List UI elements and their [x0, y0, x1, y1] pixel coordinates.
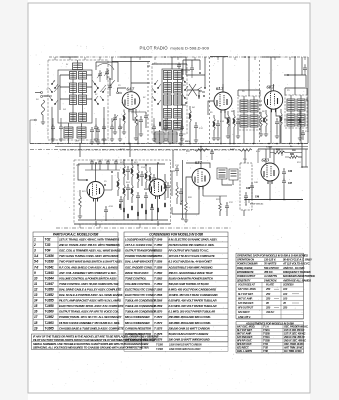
wire below PS	[248, 200, 250, 204]
svg-text:TONE CONTROL ASSY. 50,000 OHMS: TONE CONTROL ASSY. 50,000 OHMS WITH SW.	[59, 282, 119, 286]
svg-text:MICA CONDENSER: MICA CONDENSER	[125, 315, 151, 319]
middle condenser table	[124, 232, 228, 351]
crossed switch arrows	[188, 84, 197, 96]
wire output box top	[78, 164, 165, 181]
svg-text:CONDENSERS FOR MODELS IN D-598: CONDENSERS FOR MODELS IN D-598	[149, 233, 203, 237]
svg-text:T-1578: T-1578	[154, 337, 163, 341]
svg-text:T-1580: T-1580	[156, 343, 164, 346]
svg-text:FILTER CHOKE ASSEMBLY 350 OHMS: FILTER CHOKE ASSEMBLY 350 OHMS D.C. RES.	[59, 321, 120, 325]
svg-text:6.3V: 6.3V	[256, 151, 261, 153]
svg-text:POWER OUTPUT: POWER OUTPUT	[237, 275, 256, 278]
wire lower bus 149.5	[30, 149, 240, 151]
svg-text:6A7 OSC. MOD.: 6A7 OSC. MOD.	[237, 325, 255, 329]
svg-text:T-53: T-53	[45, 243, 51, 247]
svg-text:T-52: T-52	[45, 238, 51, 242]
svg-text:S1: S1	[53, 81, 55, 83]
voltage annotations	[75, 141, 293, 151]
svg-text:T-1663: T-1663	[45, 321, 54, 325]
wire T8 feed	[238, 57, 260, 96]
svg-text:T-1556: T-1556	[154, 260, 163, 264]
svg-text:OPERATION ON: OPERATION ON	[237, 259, 254, 262]
svg-text:R.F. COIL AND SHIELD CAN ASSY.: R.F. COIL AND SHIELD CAN ASSY. ALL BANDS	[59, 265, 118, 269]
antenna coil L1	[41, 100, 45, 124]
top line ticks	[55, 57, 305, 60]
wire lower misc	[96, 163, 210, 226]
svg-text:INTERMEDIATE: INTERMEDIATE	[237, 271, 254, 274]
svg-text:T-1582: T-1582	[156, 348, 164, 351]
svg-text:T-1550: T-1550	[154, 243, 163, 247]
PS extra wires	[258, 149, 306, 167]
svg-text:PLATE: PLATE	[266, 283, 274, 287]
band switch outer dashed box	[48, 60, 108, 140]
screen resistor R4	[189, 106, 192, 143]
svg-text:DIAL DRIVE CABLE & PULLEY ASSY: DIAL DRIVE CABLE & PULLEY ASSY. COMPLETE	[59, 287, 121, 291]
PS labels	[266, 146, 296, 152]
field coil cap	[244, 192, 248, 206]
svg-text:POWER TRANSFORMER: POWER TRANSFORMER	[125, 254, 158, 258]
6J7 plate load	[203, 196, 229, 216]
grid cap lead	[117, 88, 127, 94]
wire 6L7 leads	[208, 84, 230, 143]
svg-text:T-55: T-55	[263, 346, 268, 350]
svg-text:T-1636: T-1636	[45, 254, 54, 258]
svg-text:ANT. COIL ASSEMBLY WITH PRIMAR: ANT. COIL ASSEMBLY WITH PRIMARY & SEC.	[58, 271, 117, 275]
wire top bus dark segments	[60, 56, 78, 58]
svg-text:6.3 VOLT MAZDA No. 44 BAYONET: 6.3 VOLT MAZDA No. 44 BAYONET	[169, 260, 213, 264]
6K7 screen network	[275, 109, 283, 143]
power resistor R31	[285, 153, 302, 158]
6A7 cathode resistor	[122, 110, 126, 135]
svg-text:MICA CONDENSER: MICA CONDENSER	[125, 321, 151, 325]
svg-text:45: 45	[282, 301, 286, 305]
svg-text:TONE CONTROL: TONE CONTROL	[125, 276, 147, 280]
svg-text:FILTER CHOKE 350 OHMS D.C. RES: FILTER CHOKE 350 OHMS D.C. RES.	[169, 243, 215, 247]
bypass cap C12	[194, 122, 198, 142]
svg-text:T-54: T-54	[263, 342, 268, 346]
svg-text:ELECTROLYTIC COND.: ELECTROLYTIC COND.	[125, 293, 155, 297]
scan speckle	[30, 45, 308, 391]
6L7 extra bypass	[226, 111, 230, 138]
output box inner caps row	[85, 160, 120, 171]
power resistor R30	[270, 149, 290, 154]
svg-text:T-1655: T-1655	[45, 299, 54, 303]
tone control string	[176, 182, 183, 204]
svg-text:6F6 OUTPUT: 6F6 OUTPUT	[238, 306, 253, 310]
svg-text:T-52A: T-52A	[263, 328, 270, 332]
svg-text:330 AC: 330 AC	[266, 310, 274, 314]
svg-text:6K7 I.F. AMP.: 6K7 I.F. AMP.	[237, 332, 252, 336]
svg-text:T-1560: T-1560	[154, 271, 163, 275]
svg-text:T-1658: T-1658	[45, 304, 54, 308]
svg-text:1ST A.F. CHOKE COIL: 1ST A.F. CHOKE COIL	[125, 243, 153, 247]
svg-text:TUBULAR CONDENSER: TUBULAR CONDENSER	[125, 304, 157, 308]
det top right	[284, 57, 307, 87]
svg-text:T-1572: T-1572	[154, 315, 163, 319]
6J7 grid cap C30	[170, 166, 179, 176]
svg-text:19: 19	[34, 326, 38, 330]
wire T9 feed	[285, 57, 307, 95]
tube 6J7 1st audio	[192, 169, 210, 190]
svg-text:5-6: 5-6	[34, 260, 39, 264]
svg-text:8 IN. ELECTRO DYNAMIC SPKR. AS: 8 IN. ELECTRO DYNAMIC SPKR. ASSY.	[169, 238, 219, 242]
svg-text:OSC. PADDER COND.: OSC. PADDER COND.	[125, 265, 153, 269]
audio output box	[74, 160, 171, 224]
tube 6F6 output (left)	[87, 182, 104, 202]
svg-text:6K7 I.F. AMP.: 6K7 I.F. AMP.	[238, 296, 253, 300]
6L7 screen divider	[233, 110, 241, 143]
svg-text:TWO GANG TUNING COND. ASSY. WI: TWO GANG TUNING COND. ASSY. WITH DRIVE	[59, 254, 119, 258]
svg-text:TWO POINT WAVE BAND SWITCH & S: TWO POINT WAVE BAND SWITCH & SHAFT ASSY.	[59, 260, 123, 264]
svg-text:T-52B: T-52B	[263, 332, 270, 336]
svg-text:100: 100	[283, 287, 288, 291]
svg-text:T-1563: T-1563	[154, 282, 163, 286]
svg-text:T-1570: T-1570	[154, 310, 163, 314]
bypass strings bottom band	[51, 118, 184, 141]
osc coil outer dashed box	[152, 64, 187, 134]
svg-text:0.01 MFD. 600 VOLT PAPER TUBUL: 0.01 MFD. 600 VOLT PAPER TUBULAR	[169, 304, 218, 308]
svg-text:T-1569: T-1569	[154, 304, 163, 308]
wire interstage verticals	[80, 144, 302, 169]
svg-text:VOLTAGES AT: VOLTAGES AT	[238, 283, 255, 287]
osc grid feed	[182, 60, 201, 79]
svg-text:T-1576: T-1576	[154, 332, 163, 336]
output box bottom double line	[74, 223, 171, 225]
svg-text:POWER TRANS. 115 V. 60 CYC. AL: POWER TRANS. 115 V. 60 CYC. ALL SECONDAR…	[59, 315, 122, 319]
tuning gang C1	[108, 78, 114, 96]
svg-text:T-1552: T-1552	[154, 249, 163, 253]
output grid leads	[86, 171, 151, 190]
svg-text:SCREEN: SCREEN	[283, 283, 294, 287]
svg-text:LINE 115 V.: LINE 115 V.	[238, 315, 251, 319]
svg-text:PILOT LAMP BRACKET ASSY. WITH: PILOT LAMP BRACKET ASSY. WITH 6.3V. LAMP…	[59, 299, 121, 303]
detector diode load	[301, 100, 308, 140]
svg-text:250: 250	[265, 292, 271, 296]
svg-text:R31: R31	[296, 162, 301, 164]
tube 6A7 converter	[122, 92, 140, 113]
svg-text:250: 250	[265, 287, 271, 291]
svg-text:WIREWOUND RESISTOR: WIREWOUND RESISTOR	[125, 337, 158, 341]
wire top bus	[49, 56, 308, 58]
svg-text:OUTPUT TRANS. ASSY. P.P. 6F6 T: OUTPUT TRANS. ASSY. P.P. 6F6 TO VOICE CO…	[59, 310, 119, 314]
svg-text:15: 15	[34, 304, 38, 308]
tube 6K7 IF amplifier	[264, 91, 282, 112]
svg-text:OSC. COIL & TRIMMER ASSY. ALL: OSC. COIL & TRIMMER ASSY. ALL WAVE BANDS	[59, 249, 121, 253]
svg-text:250 V.: 250 V.	[185, 141, 191, 143]
band switch S1 contacts	[49, 80, 106, 105]
wire PS right	[302, 157, 308, 167]
svg-text:6J7 2ND DET.: 6J7 2ND DET.	[237, 335, 253, 339]
svg-text:SERVICING. ALL VOLTAGES MEASU: SERVICING. ALL VOLTAGES MEASURED TO CHAS…	[33, 346, 149, 350]
svg-text:16 MFD. 450 VOLT PEAK CARDBOAR: 16 MFD. 450 VOLT PEAK CARDBOARD	[169, 293, 218, 297]
tube 6F6 output (right)	[149, 179, 166, 199]
svg-text:DIAL SCALE & POINTER ASSY. ALL: DIAL SCALE & POINTER ASSY. ALL WAVE BAND…	[59, 293, 122, 297]
svg-text:PARTS FOR A.C. MODELS D-598: PARTS FOR A.C. MODELS D-598	[53, 233, 99, 237]
6A7 bias network	[131, 109, 148, 140]
svg-text:50,000 OHM 1/3 WATT CARBON: 50,000 OHM 1/3 WATT CARBON	[169, 332, 210, 336]
wire mid horizontals	[112, 62, 262, 106]
svg-text:L1: L1	[65, 64, 68, 66]
wire ant to switch	[35, 92, 41, 94]
osc switch contacts	[152, 78, 188, 105]
svg-text:DIAL LAMP BRACKET: DIAL LAMP BRACKET	[125, 260, 153, 264]
svg-text:T-1643: T-1643	[45, 271, 54, 275]
wire speaker leads	[222, 157, 245, 216]
svg-text:6F6 P.P. OUT.: 6F6 P.P. OUT.	[237, 342, 252, 346]
svg-text:T-1549: T-1549	[154, 238, 163, 242]
svg-text:6Z3: 6Z3	[262, 158, 270, 163]
svg-text:VOLUME CONTROL & POWER SWITCH: VOLUME CONTROL & POWER SWITCH ASSY.	[59, 276, 118, 280]
svg-text:LOUDSPEAKER ASSY.: LOUDSPEAKER ASSY.	[125, 238, 155, 242]
AVC filter	[195, 149, 252, 160]
svg-text:456 KC. ADJUSTABLE WAVE TRAP: 456 KC. ADJUSTABLE WAVE TRAP	[168, 271, 213, 275]
svg-text:T-1562: T-1562	[154, 276, 163, 280]
svg-text:6J7 2ND DET.: 6J7 2ND DET.	[238, 301, 254, 305]
svg-text:T-1558: T-1558	[154, 265, 163, 269]
svg-text:6Z3 RECT.: 6Z3 RECT.	[237, 346, 249, 350]
cap C48	[246, 182, 254, 199]
svg-text:ELECTROLYTIC COND.: ELECTROLYTIC COND.	[125, 287, 155, 291]
svg-text:10: 10	[34, 276, 38, 280]
volume control arrow	[180, 160, 183, 220]
svg-text:T-1652: T-1652	[45, 293, 54, 297]
svg-text:300 OHM 10 WATT WIREWOUND: 300 OHM 10 WATT WIREWOUND	[169, 337, 210, 341]
wire AVC bus	[60, 149, 250, 151]
svg-text:17: 17	[34, 315, 38, 319]
antenna terminals	[40, 91, 52, 97]
osc bottom cans	[155, 130, 183, 145]
svg-text:ELECTRO DYNAMIC SPKR. ASSY. 8: ELECTRO DYNAMIC SPKR. ASSY. 8 IN. COMPLE…	[59, 304, 124, 308]
below box remnants	[80, 224, 140, 228]
wire plate feeds	[112, 57, 271, 92]
svg-text:250 MMF. MOULDED MICA COND.: 250 MMF. MOULDED MICA COND.	[168, 315, 212, 319]
gang cap arrows	[112, 114, 118, 134]
svg-text:6A7 OSC. MOD.: 6A7 OSC. MOD.	[238, 287, 256, 291]
wire 6J7 leads	[172, 163, 203, 214]
svg-text:LINE CORD AND PLUG ASSY.: LINE CORD AND PLUG ASSY.	[169, 348, 201, 351]
oscillator/antenna coils	[70, 72, 87, 122]
right specification table	[236, 253, 315, 319]
speaker field dashed box	[240, 163, 252, 210]
detector load network	[284, 110, 302, 140]
6J7 grid leak	[184, 200, 188, 222]
svg-text:POWER CONSUMP.: POWER CONSUMP.	[237, 263, 258, 266]
svg-text:14: 14	[34, 299, 38, 303]
wire PS ground bus	[245, 181, 303, 200]
svg-text:CHASSIS BASE & TUBE SHIELD ASS: CHASSIS BASE & TUBE SHIELD ASSY. COMPLET…	[59, 326, 124, 330]
wire osc box inner	[168, 80, 178, 121]
top coil can	[73, 63, 83, 70]
svg-text:T-1565: T-1565	[154, 287, 163, 291]
svg-text:T-1665: T-1665	[45, 326, 54, 330]
svg-text:T-1660: T-1660	[45, 310, 54, 314]
svg-text:P.P. OUTPUT 6F6 TUBES TO V.C.: P.P. OUTPUT 6F6 TUBES TO V.C.	[169, 249, 210, 253]
svg-text:C1: C1	[107, 77, 110, 79]
coil shield inner box	[58, 70, 92, 123]
PS bus thicker	[245, 199, 303, 201]
6K7 cathode resistor	[264, 110, 268, 136]
svg-text:WAVE TRAP ASSY.: WAVE TRAP ASSY.	[125, 271, 150, 275]
svg-text:TUBULAR CONDENSER: TUBULAR CONDENSER	[125, 310, 157, 314]
svg-text:50,000 OHM WITH POWER SWITCH: 50,000 OHM WITH POWER SWITCH	[169, 276, 214, 280]
svg-text:T-1554: T-1554	[266, 146, 273, 149]
svg-text:T-1566: T-1566	[154, 293, 163, 297]
cathode bias resistor	[78, 190, 82, 218]
terminal posts	[185, 87, 206, 104]
svg-text:250: 250	[282, 306, 288, 310]
filter caps C46 C47	[282, 168, 293, 190]
replacement tubes / adjustments table	[236, 322, 309, 354]
wire right frame	[307, 57, 309, 143]
svg-text:DIAL LAMPS: DIAL LAMPS	[237, 349, 252, 353]
svg-text:0.1 MFD. 200 VOLT PAPER TUBULA: 0.1 MFD. 200 VOLT PAPER TUBULAR	[169, 310, 217, 314]
bus reinforcement	[30, 143, 308, 145]
left edge stub	[30, 119, 36, 143]
output box mid strings 2	[117, 167, 170, 210]
svg-text:T-1 A: T-1 A	[263, 325, 269, 329]
svg-text:16: 16	[34, 310, 38, 314]
svg-text:T-1641: T-1641	[45, 265, 54, 269]
wire output box bottom	[78, 196, 168, 220]
output box bottom caps	[104, 204, 154, 221]
svg-text:PILOT RADIO models D-598,D-90: PILOT RADIO models D-598,D-909	[140, 45, 210, 50]
svg-text:5 MICROV.: 5 MICROV.	[264, 278, 278, 282]
svg-text:11: 11	[34, 282, 37, 286]
svg-text:-3 V.: -3 V.	[75, 141, 79, 143]
svg-text:2: 2	[33, 243, 36, 247]
svg-text:AVERAGE ALL BANDS: AVERAGE ALL BANDS	[282, 278, 311, 282]
svg-text:7-8: 7-8	[34, 265, 39, 269]
svg-text:FREQ. RANGE: FREQ. RANGE	[237, 267, 253, 270]
wire heater bus	[55, 146, 308, 148]
svg-text:T-1647: T-1647	[45, 282, 54, 286]
svg-text:6L7 1ST DET.: 6L7 1ST DET.	[237, 328, 253, 332]
switch arrows	[54, 80, 115, 92]
wire osc feed	[152, 57, 187, 69]
svg-text:3-4: 3-4	[34, 254, 39, 258]
phase inverter network	[123, 160, 148, 206]
svg-text:6F6 P.P. OUT.: 6F6 P.P. OUT.	[237, 339, 252, 343]
wire 6K7 leads	[271, 84, 280, 143]
svg-text:T-1554: T-1554	[154, 254, 163, 258]
output transformer can	[217, 168, 227, 179]
tube 6L7 1st detector	[214, 92, 232, 113]
svg-text:T-56: T-56	[263, 349, 268, 353]
service note box	[32, 334, 159, 350]
wire T8 to 6K7	[260, 100, 262, 102]
svg-text:13: 13	[34, 293, 38, 297]
svg-text:6L7 1ST DET.: 6L7 1ST DET.	[238, 292, 254, 296]
svg-text:0.05 MFD. 400 VOLT PAPER TUBUL: 0.05 MFD. 400 VOLT PAPER TUBULAR	[169, 299, 218, 303]
filter choke can	[229, 169, 238, 180]
svg-text:8 MFD. 450 VOLT PEAK CARDBOARD: 8 MFD. 450 VOLT PEAK CARDBOARD	[169, 287, 217, 291]
svg-text:T-1662: T-1662	[45, 315, 54, 319]
svg-text:12: 12	[34, 287, 38, 291]
svg-text:CARBON RESISTOR: CARBON RESISTOR	[125, 332, 152, 336]
svg-text:100 MMF. MOULDED MICA COND.: 100 MMF. MOULDED MICA COND.	[169, 321, 212, 325]
svg-text:1ST I.F. TRANS. ASSY. 456 KC.: 1ST I.F. TRANS. ASSY. 456 KC. WITH TRIMM…	[59, 238, 119, 242]
svg-text:2ND I.F. TRANS. ASSY. 456 KC.: 2ND I.F. TRANS. ASSY. 456 KC. WITH TRIMM…	[58, 243, 120, 247]
svg-text:2,000 OHM 1/2 WATT CARBON: 2,000 OHM 1/2 WATT CARBON	[168, 343, 202, 346]
svg-text:250,000 OHM 1/3 WATT CARBON: 250,000 OHM 1/3 WATT CARBON	[168, 326, 211, 330]
svg-text:T-1568: T-1568	[154, 299, 163, 303]
svg-text:6J7: 6J7	[195, 160, 203, 165]
IF transformer T9	[285, 95, 307, 144]
svg-text:TUBULAR CONDENSER: TUBULAR CONDENSER	[125, 299, 157, 303]
svg-text:T-1575: T-1575	[154, 326, 163, 330]
svg-text:T-54: T-54	[45, 249, 51, 253]
oscillator coils T7	[164, 71, 182, 130]
svg-text:T-53A: T-53A	[263, 335, 270, 339]
svg-text:18: 18	[34, 321, 38, 325]
svg-text:T-1644: T-1644	[45, 276, 54, 280]
tube 6Z3 rectifier	[261, 163, 279, 184]
shield partitions	[147, 62, 149, 143]
svg-text:100: 100	[283, 296, 288, 300]
svg-text:B SW 115V AC: B SW 115V AC	[250, 203, 264, 206]
wire box to bus	[44, 96, 104, 144]
padder coil cans	[64, 123, 100, 144]
left parts table	[33, 232, 124, 331]
wire coil box inner	[60, 75, 92, 113]
wire B+ bus	[30, 143, 308, 145]
svg-text:T-1638: T-1638	[45, 260, 54, 264]
svg-text:T-1573: T-1573	[154, 321, 163, 325]
svg-text:ADJUSTABLE 1400 MMF. PADDING: ADJUSTABLE 1400 MMF. PADDING	[168, 265, 214, 269]
6L7 cathode network	[212, 115, 220, 140]
svg-text:VOLUME CONTROL: VOLUME CONTROL	[125, 282, 151, 286]
svg-text:6.3 V.: 6.3 V.	[120, 149, 125, 151]
svg-text:6Z3 RECT.: 6Z3 RECT.	[238, 310, 250, 314]
svg-text:SENSITIVITY: SENSITIVITY	[237, 279, 251, 282]
svg-text:100: 100	[283, 292, 288, 296]
svg-text:500,000 OHM TAPPED AT 50,000: 500,000 OHM TAPPED AT 50,000	[169, 282, 210, 286]
wire 6A7 leads	[129, 83, 150, 143]
svg-text:R.F. TRIM. 18 MC.: R.F. TRIM. 18 MC.	[284, 350, 303, 353]
svg-text:R1: R1	[142, 97, 146, 99]
component bodies	[117, 114, 301, 218]
svg-text:CARBON RESISTOR: CARBON RESISTOR	[125, 326, 152, 330]
osc coil shield box	[162, 69, 183, 130]
svg-text:T-1650: T-1650	[45, 287, 54, 291]
wire osc to 6L7 grid	[187, 90, 205, 99]
svg-text:D: D	[305, 99, 308, 101]
tuning gang assembly	[96, 62, 118, 82]
wire rectifier top	[258, 149, 308, 164]
IF transformer T8	[238, 96, 263, 144]
svg-text:T-53B: T-53B	[263, 339, 270, 343]
svg-text:250: 250	[265, 306, 271, 310]
